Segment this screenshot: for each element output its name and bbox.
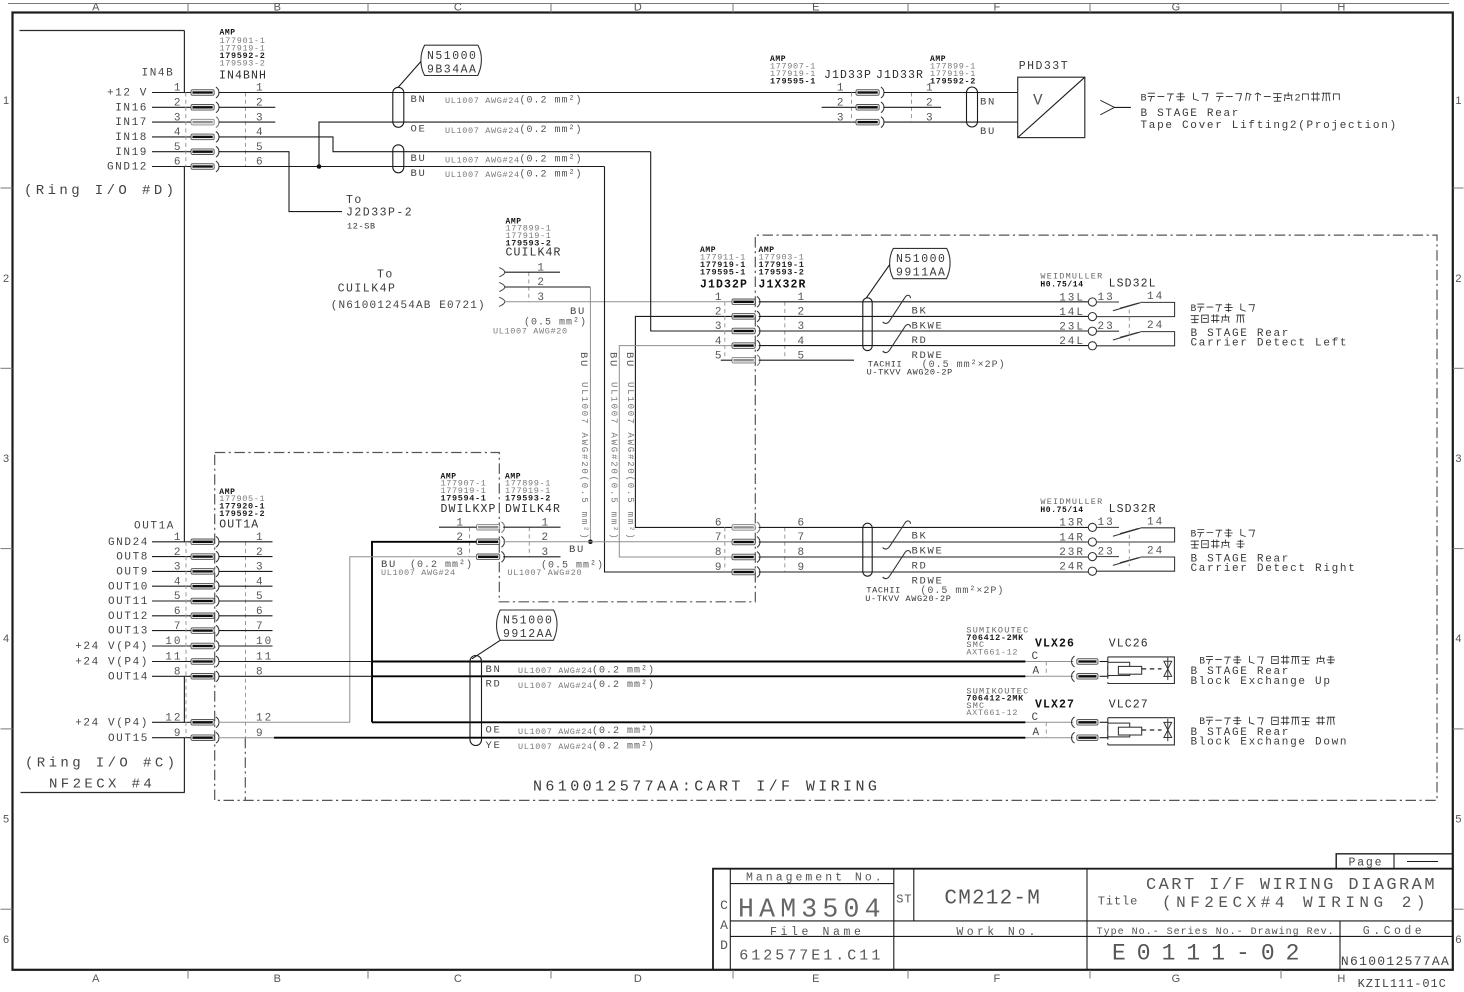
title block page box [1336,854,1453,870]
connector J1D33P mating dashed lines [851,93,853,123]
connector J1X32R AMP part numbers [759,246,807,291]
svg-text:1: 1 [715,292,724,304]
svg-text:(N610012454AB E0721): (N610012454AB E0721) [331,300,486,312]
svg-text:OUT11: OUT11 [108,596,149,608]
connector J1D32P upper mating dashed lines [724,302,726,360]
svg-text:BU: BU [570,306,586,318]
svg-text:179593-2: 179593-2 [759,267,805,277]
connector CUILK4R forks [499,268,505,307]
svg-text:D: D [720,938,728,953]
svg-text:Type No.- Series No.- Drawing: Type No.- Series No.- Drawing Rev. [1097,926,1335,938]
svg-text:CM212-M: CM212-M [944,888,1041,911]
wire label BU 2 [411,168,583,181]
valve VLC26 body [1108,657,1175,684]
svg-text:(Ring I/O #D): (Ring I/O #D) [24,183,177,199]
svg-text:G.Code: G.Code [1363,925,1425,938]
svg-text:U-TKVV AWG20-2P: U-TKVV AWG20-2P [867,368,953,378]
svg-text:UL1007 AWG#24: UL1007 AWG#24 [445,96,520,106]
svg-text:5: 5 [3,813,9,825]
svg-text:IN4BNH: IN4BNH [219,69,267,82]
svg-text:C: C [454,2,462,14]
svg-text:DWILKXP: DWILKXP [441,503,497,516]
svg-text:Tape Cover Lifting2(Projection: Tape Cover Lifting2(Projection) [1141,120,1398,132]
svg-text:14: 14 [1147,516,1164,528]
connector DWILKXP AMP part numbers [441,472,497,516]
connector J1D33P contacts [856,87,884,127]
connector OUT1A pin labels [75,537,149,745]
svg-text:J1D33R: J1D33R [876,69,924,82]
svg-text:(Ring I/O #C): (Ring I/O #C) [25,756,178,772]
svg-text:B: B [1199,655,1205,666]
svg-text:OE: OE [411,124,427,136]
svg-text:9B34AA: 9B34AA [427,63,477,76]
cable oval BU/BU [393,145,404,173]
wire label OE lower [486,725,656,738]
svg-text:E: E [812,973,820,985]
svg-text:J2D33P-2: J2D33P-2 [346,207,413,220]
wire CUILK4R pin3 to J1D32P pin1 [505,301,732,303]
connector IN4B pin labels [107,88,148,174]
connector J1D32P lower contacts [732,522,760,577]
svg-text:A: A [720,918,728,933]
wire CUILK4R pin2 to riser [505,286,591,288]
svg-text:2: 2 [1455,273,1461,285]
wire labels BK BKWE RD RDWE upper [867,306,1006,378]
svg-text:B: B [1141,94,1147,105]
wires into VLC27 [1100,721,1109,723]
svg-text:B: B [1191,528,1197,539]
wire jumper V4 J1D32P pin2-pin6 [635,316,732,527]
svg-text:C: C [720,898,728,913]
svg-text:9: 9 [715,562,724,574]
connector DWILKXP pin numbers [456,517,550,559]
svg-text:N610012577AA:CART I/F WIRING: N610012577AA:CART I/F WIRING [533,779,880,796]
wire OE riser and run to J1D33P pin3 [319,122,856,166]
svg-text:C: C [454,973,462,985]
svg-text:IN19: IN19 [115,147,148,159]
svg-text:BU: BU [569,544,585,556]
svg-text:OUT14: OUT14 [108,671,149,683]
cable oval BN/RD/OE/YE [470,656,482,746]
svg-text:UL1007 AWG#20: UL1007 AWG#20 [508,568,583,578]
svg-text:6: 6 [1455,934,1461,946]
svg-text:B: B [274,2,282,14]
svg-text:4: 4 [3,633,9,645]
note tape cover lifting JP [1141,93,1340,105]
cable oval at PHD33T [967,87,978,127]
svg-text:BN: BN [980,96,996,108]
svg-text:To: To [377,269,394,282]
svg-text:179593-2: 179593-2 [220,58,266,68]
switch LSD32R upper contact [1088,523,1174,546]
wire OUT1A pin8 OUT14 to VLX26 A (RD) [219,675,372,677]
wires OUT1A stub pins [219,542,273,646]
svg-text:N51000: N51000 [896,253,946,266]
wire label BN lower [486,664,656,677]
svg-text:179592-2: 179592-2 [930,76,976,86]
svg-text:23L: 23L [1059,322,1085,334]
terminal LSD32R row labels [1059,516,1164,573]
svg-text:OUT8: OUT8 [116,552,149,564]
svg-text:4: 4 [715,336,724,348]
svg-text:OUT9: OUT9 [116,567,149,579]
svg-text:BN: BN [486,664,502,676]
svg-text:3: 3 [1455,453,1461,465]
wire riser V1 CUILK4R pin2 down [589,287,591,542]
svg-text:G: G [1172,973,1181,985]
svg-text:3: 3 [715,321,724,333]
svg-text:Block Exchange Up: Block Exchange Up [1191,676,1332,688]
wire OUT1A pin11 +24V to VLX26 C (BN) [219,661,372,663]
svg-text:UL1007 AWG#20(0.5 mm²): UL1007 AWG#20(0.5 mm²) [609,382,619,540]
connector IN4BNH part numbers (AMP) [219,28,267,82]
svg-text:IN17: IN17 [115,117,148,129]
svg-text:UL1007 AWG#24: UL1007 AWG#24 [518,727,593,737]
wire DWILK4R pin2 to J1D32P pin7 [503,541,732,543]
wire OE +24V to VLX27 C [372,721,1025,723]
svg-text:D: D [634,2,642,14]
svg-text:1: 1 [837,83,846,95]
svg-text:VLC26: VLC26 [1109,638,1149,651]
svg-text:HAM3504: HAM3504 [738,895,886,925]
svg-text:B STAGE Rear: B STAGE Rear [1141,108,1241,120]
balloon N51000 9912AA [472,610,557,659]
svg-text:LSD32R: LSD32R [1109,503,1157,516]
wire label BU 0.5mm2 under CUILK4R [493,306,587,337]
svg-text:13R: 13R [1059,518,1085,530]
wire IN4B pin1 BN to J1D33P pin1 [219,92,856,94]
svg-text:(0.2 mm²): (0.2 mm²) [592,740,655,752]
valve connector VLX27 part numbers [966,686,1029,718]
title block [713,869,1453,970]
note VLC27 description [1199,716,1335,727]
Ring I/O block outline [20,31,185,793]
valve VLC27 body [1108,718,1175,745]
svg-text:BU: BU [623,352,635,368]
switch LSD32L upper contact [1088,298,1174,321]
balloon N51000 9B34AA [398,45,481,87]
svg-text:CART I/F WIRING DIAGRAM: CART I/F WIRING DIAGRAM [1146,876,1437,895]
svg-text:Title: Title [1098,895,1139,909]
svg-text:UL1007 AWG#20(0.5 mm²): UL1007 AWG#20(0.5 mm²) [625,382,635,540]
svg-text:G: G [1172,2,1181,14]
junction dot pin6/OE [317,164,322,169]
svg-text:UL1007 AWG#24: UL1007 AWG#24 [518,742,593,752]
connector CUILK4R AMP part numbers [506,217,562,259]
svg-text:B: B [1199,716,1205,727]
svg-text:BKWE: BKWE [912,546,944,558]
svg-text:CUILK4R: CUILK4R [506,246,562,259]
svg-text:6: 6 [3,934,9,946]
wires into VLC26 [1100,661,1109,663]
svg-text:4: 4 [1455,633,1461,645]
svg-text:CUILK4P: CUILK4P [338,283,397,296]
svg-text:24: 24 [1147,546,1164,558]
svg-text:C: C [1032,651,1040,663]
connector J1D33R AMP part numbers right [930,55,976,86]
svg-text:BU: BU [577,352,589,368]
grid row numbers left [3,95,9,946]
svg-text:File Name: File Name [770,926,865,939]
wire J1D33R pin3 to PHD33T [884,121,1018,123]
junction dot V1 [588,540,593,545]
svg-text:C: C [1032,712,1040,724]
svg-text:OUT1A: OUT1A [219,518,259,531]
svg-text:Block Exchange Down: Block Exchange Down [1191,737,1349,749]
svg-text:Management No.: Management No. [746,872,885,885]
svg-text:A: A [1033,666,1041,678]
svg-text:OE: OE [486,725,502,737]
connector OUT1A contacts [191,536,219,743]
svg-text:NF2ECX #4: NF2ECX #4 [49,777,155,793]
connector IN4B mating dashed lines [185,93,187,167]
svg-text:J1D33P: J1D33P [824,69,872,82]
svg-text:+24 V(P4): +24 V(P4) [75,717,149,729]
wire DWILKXP pin2 riser from +24V [372,542,477,723]
svg-text:YE: YE [486,740,502,752]
svg-text:OUT10: OUT10 [108,581,149,593]
svg-text:Work No.: Work No. [956,926,1038,939]
svg-text:LSD32L: LSD32L [1109,278,1157,291]
svg-text:(0.2 mm²): (0.2 mm²) [592,679,655,691]
svg-text:2: 2 [3,273,9,285]
title block CAD [720,898,728,953]
svg-text:GND24: GND24 [108,537,149,549]
connector DWILKXP mating dashed lines [469,527,471,557]
svg-text:OUT15: OUT15 [108,733,149,745]
dash-dot stub below OUT1A pin9 [244,738,246,801]
svg-text:BU: BU [607,352,619,368]
connector J1D33P pin numbers [837,83,935,125]
svg-text:Page: Page [1349,856,1384,869]
svg-text:14R: 14R [1059,532,1085,544]
note VLC26 description [1199,655,1335,666]
terminal LSD32L header [1040,271,1156,290]
wire J1D32P pin5 stubs [721,359,732,361]
svg-text:(0.2 mm²): (0.2 mm²) [520,124,583,136]
twisted pair marks upper [883,295,911,323]
svg-text:V: V [1033,92,1043,110]
svg-text:DWILK4R: DWILK4R [505,503,561,516]
valve connector VLX26 contacts [1072,656,1098,667]
connector OUT1A wires into contacts [152,542,191,738]
connector J1D32P upper pin numbers [715,292,806,362]
wire label OE [411,124,583,137]
svg-text:E: E [812,2,820,14]
switch LSD32L lower contact [1088,327,1174,350]
connector IN4B pin wires into contacts [152,93,191,167]
wire riser V3 BU to J1D32P pin3 [651,152,732,331]
svg-text:BK: BK [912,306,928,318]
svg-text:BU: BU [980,126,996,138]
svg-text:OUT13: OUT13 [108,626,149,638]
connector OUT1A AMP part numbers [219,488,265,532]
valve connector VLX27 mating dashed [1045,722,1047,737]
svg-text:7: 7 [715,532,724,544]
svg-text:+24 V(P4): +24 V(P4) [75,641,149,653]
svg-text:VLX26: VLX26 [1035,638,1075,651]
svg-text:D: D [634,973,642,985]
connector IN4B pin numbers [174,83,265,169]
svg-text:BK: BK [912,531,928,543]
connector OUT1A mating dashed lines [185,542,187,738]
wire label BN UL1007 AWG#24(0.2 mm2) [411,94,583,107]
svg-text:9911AA: 9911AA [896,267,946,280]
valve connector VLX26 part numbers [966,626,1029,658]
wires J1X32R upper to LSD32L [759,302,1089,346]
svg-text:14L: 14L [1059,307,1085,319]
sensor PHD33T box [1018,77,1085,137]
svg-text:N610012577AA: N610012577AA [1341,954,1450,969]
svg-text:VLX27: VLX27 [1035,698,1075,711]
svg-text:(0.2 mm²): (0.2 mm²) [592,664,655,676]
svg-text:8: 8 [715,547,724,559]
svg-text:N51000: N51000 [503,615,553,628]
connector CUILK4R pin numbers [537,262,546,304]
svg-text:E0111-02: E0111-02 [1112,941,1310,967]
wire IN4B pin6 BU to vertical [219,166,605,168]
wires J1X32R lower to LSD32R [759,527,1089,572]
grid column letters top [92,2,1345,14]
wire CUILK4R pin1 stub [505,271,560,273]
svg-text:Carrier Detect Right: Carrier Detect Right [1191,563,1357,575]
svg-text:2: 2 [1294,94,1300,105]
svg-text:PHD33T: PHD33T [1019,60,1069,73]
svg-text:H: H [1337,973,1345,985]
svg-text:(0.2 mm²): (0.2 mm²) [520,154,583,166]
svg-text:1: 1 [1455,95,1461,107]
svg-text:U-TKVV AWG20-2P: U-TKVV AWG20-2P [865,594,951,604]
svg-text:13L: 13L [1059,292,1085,304]
svg-text:H0.75/14: H0.75/14 [1040,280,1083,289]
wire OUT1A pin9 OUT15 to VLX27 A (YE) [219,737,274,739]
note LSD32R description [1191,528,1255,539]
cable oval TACHII lower [863,523,872,576]
svg-text:RD: RD [912,335,928,347]
balloon N51000 9911AA [866,248,950,297]
svg-text:179595-1: 179595-1 [700,267,746,277]
terminal LSD32L row labels [1059,291,1164,348]
svg-text:To: To [346,194,363,207]
connector OUT1A pin numbers [165,532,273,740]
svg-text:OUT1A: OUT1A [134,520,175,532]
wire DWILK4R pin3 right stub [503,556,560,558]
wire label BU 1 [411,153,583,166]
svg-text:J1D32P: J1D32P [700,279,748,292]
svg-text:(NF2ECX#4 WIRING 2): (NF2ECX#4 WIRING 2) [1162,894,1430,912]
wire labels BK BKWE RD RDWE lower [865,531,1004,604]
svg-text:AXT661-12: AXT661-12 [966,708,1018,718]
svg-text:23R: 23R [1059,547,1085,559]
wire IN4B pin5 to J2D33P-2 [219,152,342,212]
svg-text:(0.2 mm²): (0.2 mm²) [520,169,583,181]
svg-text:6: 6 [715,518,724,530]
wire J1D33P pin2 left stub [822,106,856,108]
label To J2D33P-2 [346,194,413,232]
svg-text:24R: 24R [1059,562,1085,574]
svg-text:Carrier Detect Left: Carrier Detect Left [1191,338,1349,350]
valve connector VLX27 contacts [1072,717,1098,728]
svg-text:(0.2 mm²): (0.2 mm²) [520,95,583,107]
wire label BU 0.5mm2 right of DWILK4R [508,544,605,578]
valve connector VLX26 mating dashed [1045,662,1047,677]
svg-text:3: 3 [837,112,846,124]
svg-text:BKWE: BKWE [912,321,944,333]
svg-text:1: 1 [3,95,9,107]
connector J1D33P AMP part numbers left [770,55,816,86]
arrow projection output [1100,100,1131,115]
svg-text:+24 V(P4): +24 V(P4) [75,657,149,669]
svg-text:24L: 24L [1059,336,1085,348]
cable oval TACHII upper [863,298,872,351]
wire IN4B pin3 stub [219,121,276,123]
svg-text:UL1007 AWG#24: UL1007 AWG#24 [445,170,520,180]
connector IN4B contacts [191,87,219,172]
wire DWILK4R pin1 right stub [503,526,560,528]
svg-text:UL1007 AWG#24: UL1007 AWG#24 [445,155,520,165]
svg-text:3: 3 [3,453,9,465]
switch LSD32L coupling dashed [1128,310,1130,341]
svg-text:ST: ST [896,893,912,907]
terminal LSD32R header [1040,497,1156,516]
connector J1D32P lower pin numbers [715,518,806,575]
svg-text:A: A [92,2,100,14]
wire label YE lower [486,740,656,753]
wire label BU 0.2mm2 left of DWILKXP [381,559,473,578]
svg-text:A: A [92,973,100,985]
svg-text:F: F [993,973,1000,985]
svg-text:KZIL111-01C: KZIL111-01C [1358,977,1447,991]
svg-text:IN4B: IN4B [142,68,175,80]
svg-text:IN18: IN18 [115,132,148,144]
svg-text:BU: BU [411,153,427,165]
wire J1D33P pin2 right stub [884,106,941,108]
wire IN4B pin2 stub [219,106,276,108]
svg-text:9912AA: 9912AA [503,628,553,641]
twisted pair marks lower [883,521,911,549]
harness boundary dash-dot box [215,235,1437,800]
svg-text:VLC27: VLC27 [1109,698,1149,711]
svg-text:2: 2 [715,307,724,319]
svg-text:N51000: N51000 [427,50,477,63]
wire DWILKXP pin3 riser from +24V P4 [350,557,477,723]
svg-text:UL1007 AWG#20(0.5 mm²): UL1007 AWG#20(0.5 mm²) [579,382,589,540]
note LSD32L description [1191,303,1255,314]
svg-text:14: 14 [1147,291,1164,303]
svg-text:BN: BN [411,94,427,106]
svg-text:H0.75/14: H0.75/14 [1040,506,1083,515]
cable oval BN/OE [393,87,404,127]
svg-text:612577E1.C11: 612577E1.C11 [739,948,883,965]
svg-text:A: A [1033,727,1041,739]
svg-text:UL1007 AWG#24: UL1007 AWG#24 [381,568,456,578]
grid row numbers right [1455,95,1461,946]
svg-text:5: 5 [1455,813,1461,825]
connector DWILKXP contacts [477,522,505,562]
svg-text:J1X32R: J1X32R [759,279,807,292]
grid column letters bottom [92,973,1345,985]
svg-text:UL1007 AWG#24: UL1007 AWG#24 [518,666,593,676]
wire IN4B pin4 to BU jog [219,137,651,152]
svg-text:H: H [1337,2,1345,14]
svg-text:(0.2 mm²): (0.2 mm²) [592,725,655,737]
svg-text:BU: BU [411,168,427,180]
svg-text:F: F [993,2,1000,14]
svg-text:UL1007 AWG#20: UL1007 AWG#20 [493,327,568,337]
connector CUILK4R mating dashed line [528,272,530,302]
svg-text:UL1007 AWG#24: UL1007 AWG#24 [518,681,593,691]
svg-text:+12 V: +12 V [107,88,148,100]
